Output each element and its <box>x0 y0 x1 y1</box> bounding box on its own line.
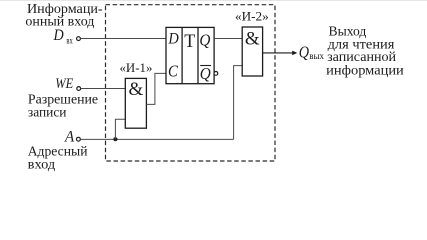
svg-text:T: T <box>184 31 195 52</box>
input terminal A <box>77 137 81 141</box>
label: Выход для чтения записанной информации <box>326 25 404 79</box>
pin label Q-bar <box>200 64 211 83</box>
AND gate И-2 <box>242 27 262 76</box>
wire: A branch up to AND gate И-2 input 2 <box>234 66 243 140</box>
svg-text:WE: WE <box>55 76 73 92</box>
svg-text:«И-1»: «И-1» <box>120 61 153 75</box>
svg-text:D: D <box>53 27 64 44</box>
svg-text:записи: записи <box>28 105 67 120</box>
wire: Dвх to D input of trigger <box>81 38 166 40</box>
wire: И-1 output to C input of trigger <box>146 73 166 104</box>
output wire with arrow to Qвых <box>263 51 298 56</box>
svg-text:вход: вход <box>28 157 56 172</box>
junction on A line <box>113 137 117 141</box>
page top rule (faint) <box>0 0 427 2</box>
svg-text:&: & <box>245 29 260 50</box>
wire: address line A <box>81 138 234 140</box>
svg-text:A: A <box>64 128 74 145</box>
svg-text:&: & <box>129 79 144 100</box>
AND gate И-1 <box>125 78 146 128</box>
svg-text:C: C <box>168 62 179 81</box>
node Qвых label <box>299 43 325 62</box>
svg-text:Q: Q <box>299 43 309 62</box>
svg-text:D: D <box>168 31 180 48</box>
memory-cell dashed boundary <box>106 5 276 161</box>
wire: Q output to AND gate И-2 input 1 <box>214 38 242 40</box>
label: Адресный вход <box>28 144 88 172</box>
svg-text:вых: вых <box>309 51 324 61</box>
svg-text:вх: вх <box>66 35 73 45</box>
svg-text:«И-2»: «И-2» <box>235 9 269 23</box>
svg-text:Q: Q <box>199 31 210 50</box>
input terminal WE <box>77 87 81 91</box>
wire: WE to AND gate И-1 input 1 <box>81 88 126 90</box>
input terminal Dвх <box>77 37 81 41</box>
label: Разрешение записи <box>28 92 98 120</box>
svg-text:Q: Q <box>200 64 211 83</box>
inverted output circle on Q-bar <box>214 72 218 76</box>
wire: A branch up to AND gate И-1 input 2 <box>115 119 125 139</box>
svg-text:информации: информации <box>326 63 404 78</box>
node Dвх label <box>53 27 74 46</box>
label: Информационный вход <box>25 2 103 29</box>
D-T trigger <box>166 27 214 83</box>
